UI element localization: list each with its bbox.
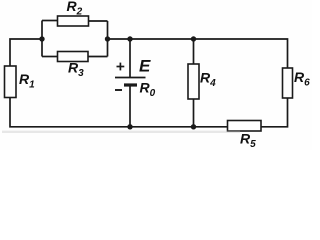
svg-text:R4: R4 [200,70,216,90]
wire: parallel split vertical at node A [41,21,43,57]
battery E positive plate [115,77,146,79]
wire: R4 top lead [193,39,195,64]
node A junction dot [39,36,44,41]
node: battery top junction dot [127,36,132,41]
wire: parallel join vertical at node B [107,21,109,57]
svg-text:R0: R0 [140,80,156,100]
wire: left vertical top + top-left horizontal [10,39,42,67]
svg-text:R2: R2 [67,0,83,18]
label - polarity [115,89,122,91]
battery E negative plate (thick) [124,83,137,86]
resistor R4 [188,64,199,99]
label + polarity [117,63,125,71]
wire: R3 left lead [42,56,58,58]
wire: R3 right lead [88,56,108,58]
node: R4 bottom junction dot [191,124,196,129]
resistor R6 [283,68,293,98]
scan shadow artifact under bottom wire [2,131,240,133]
svg-text:E: E [139,57,151,76]
wire: battery top lead [129,39,131,78]
wire: R2 left lead [42,20,58,22]
wire: battery bottom lead [129,87,131,127]
resistor R1 [5,66,17,98]
wire: R4 bottom lead [193,99,195,127]
resistor R5 [228,121,262,132]
node B junction dot [105,36,110,41]
svg-text:R6: R6 [294,69,310,89]
node: battery bottom junction dot [127,124,132,129]
svg-text:R1: R1 [19,71,35,91]
resistor R2 [58,16,89,26]
wire: R2 right lead [88,20,108,22]
wire: left vertical bottom + bottom horizontal to R5 [10,97,228,127]
svg-text:R3: R3 [68,60,84,80]
wire: bottom-right horizontal + right vertical below R6 [261,98,288,127]
wire: top horizontal + right vertical down to R6 [108,39,288,68]
node: R4 top junction dot [191,36,196,41]
resistor R3 [58,52,89,62]
svg-text:R5: R5 [240,131,256,151]
